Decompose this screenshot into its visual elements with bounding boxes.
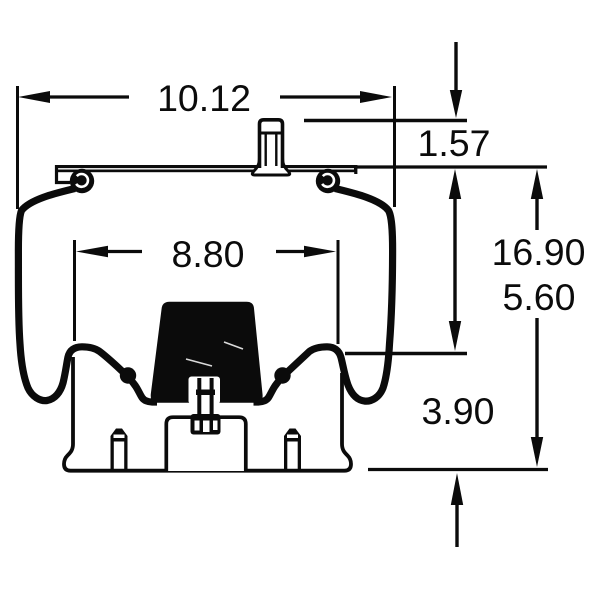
bellows right knot	[274, 367, 290, 383]
dim 8.80 dimension line with arrows	[76, 246, 336, 258]
bolt shaft	[196, 378, 215, 418]
bolt washer cutout in bumper	[189, 377, 221, 405]
hex nut	[191, 414, 221, 435]
dim 16.90 vertical line with arrows	[531, 169, 543, 467]
plate left end hook	[57, 165, 71, 183]
base stud right	[284, 429, 301, 471]
svg-text:1.57: 1.57	[418, 122, 491, 164]
dim 10.12 extension line left	[16, 86, 19, 209]
svg-text:5.60: 5.60	[503, 276, 576, 318]
top plate level extension line to right	[357, 165, 547, 168]
dim 10.12 dimension line with arrows	[18, 91, 392, 103]
rubber bumper (black)	[151, 302, 263, 403]
dim 5.60 vertical double arrow (plate to bumper-top line)	[449, 169, 461, 351]
base stud left	[111, 429, 128, 471]
top plate	[55, 165, 357, 183]
top stud flange base	[252, 155, 289, 175]
left bead roll	[70, 169, 94, 193]
bumper top reference line	[345, 352, 467, 355]
dim 10.12 extension line right	[393, 86, 396, 207]
bellows left knot	[120, 367, 136, 383]
dim 3.90 up arrow below bottom line	[451, 473, 463, 547]
dim 1.57 down arrow	[450, 42, 462, 118]
svg-text:16.90: 16.90	[492, 231, 586, 273]
bumper white speckles	[186, 342, 243, 366]
dim 1.57 top reference line (stud top level)	[304, 119, 467, 122]
bottom extension line	[368, 468, 548, 471]
svg-text:3.90: 3.90	[422, 390, 495, 432]
svg-text:10.12: 10.12	[157, 77, 251, 119]
pedestal box	[166, 417, 246, 471]
svg-text:8.80: 8.80	[172, 233, 245, 275]
piston skirt outline	[64, 357, 351, 471]
right bead roll	[316, 169, 340, 193]
bellows right wall and lower lobe	[254, 189, 393, 403]
dim 8.80 extension line right	[337, 240, 340, 344]
plate right end hook	[354, 165, 357, 174]
top stud body	[260, 120, 283, 168]
dim 8.80 extension line left	[73, 240, 76, 341]
bellows left wall and lower lobe	[18, 189, 157, 403]
